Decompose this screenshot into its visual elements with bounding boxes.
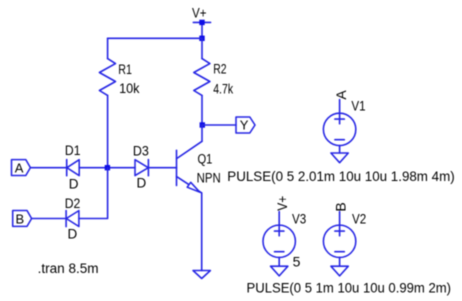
svg-text:A: A [333,90,349,100]
svg-text:A: A [15,161,24,176]
svg-text:R1: R1 [118,62,132,77]
svg-text:D3: D3 [133,144,149,159]
svg-text:B: B [16,211,25,226]
svg-text:R2: R2 [213,62,226,77]
svg-text:.tran 8.5m: .tran 8.5m [38,261,99,276]
svg-text:NPN: NPN [197,170,221,185]
svg-text:V1: V1 [351,99,365,114]
svg-text:D: D [69,176,79,191]
svg-text:V3: V3 [292,212,306,227]
svg-text:V2: V2 [352,212,366,227]
svg-text:5: 5 [293,254,301,270]
svg-text:PULSE(0 5 1m 10u 10u 0.99m 2m): PULSE(0 5 1m 10u 10u 0.99m 2m) [247,280,452,295]
svg-text:B: B [332,202,348,211]
svg-text:4.7k: 4.7k [213,82,233,97]
svg-text:V+: V+ [192,6,207,21]
svg-text:D: D [137,176,147,191]
svg-text:Y: Y [240,117,249,132]
svg-text:V+: V+ [274,196,290,211]
svg-text:PULSE(0 5 2.01m 10u 10u 1.98m: PULSE(0 5 2.01m 10u 10u 1.98m 4m) [227,169,454,184]
svg-text:D1: D1 [65,143,81,158]
svg-text:Q1: Q1 [198,151,213,166]
svg-text:D: D [68,226,78,241]
svg-text:10k: 10k [119,81,140,96]
svg-text:D2: D2 [65,196,81,211]
